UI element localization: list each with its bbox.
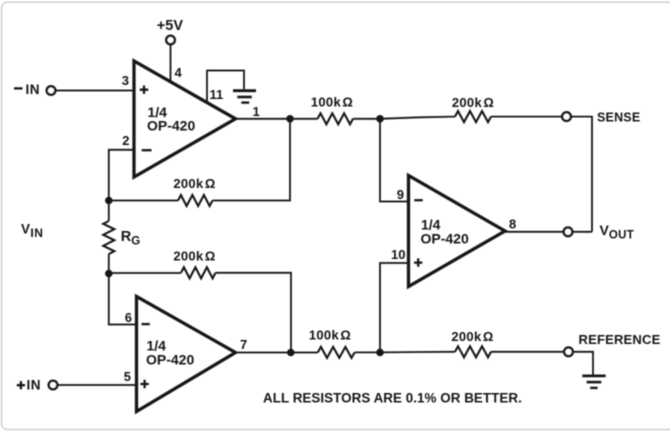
- wire: 200k to node C: [109, 200, 178, 202]
- svg-text:9: 9: [397, 187, 404, 202]
- wire: 200k to REFERENCE terminal: [491, 351, 564, 353]
- svg-text:ALL RESISTORS ARE 0.1% OR BETT: ALL RESISTORS ARE 0.1% OR BETTER.: [263, 390, 522, 405]
- REFERENCE terminal: [564, 348, 573, 357]
- svg-text:7: 7: [240, 337, 247, 352]
- resistor 200k (sense): [455, 111, 491, 122]
- resistor 200k (U2 feedback): [181, 267, 216, 278]
- wire: +5V to U1 pin 4: [170, 44, 172, 82]
- resistor 200k (reference): [455, 346, 491, 357]
- svg-text:10: 10: [391, 247, 405, 262]
- ground (reference): [582, 376, 605, 388]
- VOUT label: [600, 222, 635, 241]
- wire: SENSE terminal to VOUT line: [571, 117, 592, 232]
- RG label: [121, 229, 140, 247]
- svg-text:200k Ω: 200k Ω: [173, 176, 215, 191]
- ground (U1 pin 11): [233, 91, 256, 103]
- wire: 100k to node F: [355, 351, 380, 353]
- wire: node D down to U2 pin 6: [109, 274, 137, 325]
- svg-text:1: 1: [253, 104, 260, 119]
- resistor 100k (bottom): [318, 347, 355, 358]
- svg-text:100k Ω: 100k Ω: [309, 327, 351, 342]
- wire: node D to 200k (U2 feedback): [109, 272, 181, 274]
- op-amp U3 (1/4 OP-420, right): [409, 176, 506, 287]
- wire: U2 output pin 7 to node E: [236, 352, 318, 354]
- op-amp U2 minus sign (pin 6 input): [142, 323, 150, 325]
- -IN label: [14, 82, 40, 97]
- svg-text:IN: IN: [26, 82, 41, 97]
- resistor 100k (top): [318, 113, 354, 124]
- svg-text:IN: IN: [27, 378, 42, 393]
- node C junction: [105, 197, 113, 205]
- svg-text:200k Ω: 200k Ω: [173, 249, 215, 264]
- wire: U1 pin 2 to node C: [109, 150, 134, 201]
- wire: node A down to 200k feedback (U1): [213, 119, 291, 201]
- node D junction: [105, 270, 113, 278]
- svg-text:3: 3: [122, 73, 129, 88]
- op-amp U1 plus sign (pin 3 input): [140, 86, 148, 94]
- wire: REFERENCE terminal to ground: [573, 352, 593, 375]
- V_IN label: [21, 222, 43, 240]
- svg-text:OP-420: OP-420: [421, 231, 469, 247]
- wire: node B to 200k sense resistor: [380, 117, 455, 119]
- svg-text:OP-420: OP-420: [147, 118, 195, 134]
- svg-text:200k Ω: 200k Ω: [451, 329, 493, 344]
- resistor RG: [103, 221, 114, 254]
- op-amp U3 plus sign (pin 10 input): [414, 258, 422, 266]
- svg-text:2: 2: [122, 133, 129, 148]
- op-amp U3 minus sign (pin 9 input): [414, 199, 422, 201]
- wire: node C to RG: [108, 201, 110, 222]
- wire: node F to 200k reference resistor: [380, 351, 455, 354]
- VOUT terminal: [564, 228, 573, 237]
- svg-text:4: 4: [175, 65, 183, 80]
- SENSE terminal: [562, 112, 571, 121]
- svg-text:REFERENCE: REFERENCE: [579, 332, 661, 347]
- node E junction: [287, 349, 295, 357]
- wire: 100k to node B: [353, 118, 380, 120]
- op-amp U2 (1/4 OP-420, bottom left): [137, 297, 236, 412]
- svg-text:200k Ω: 200k Ω: [452, 95, 494, 110]
- svg-text:5: 5: [124, 369, 131, 384]
- wire: VOUT terminal to sense feedback corner: [572, 231, 592, 233]
- wire: node F up to U3 pin 10: [380, 263, 409, 352]
- wire: 200k to SENSE terminal: [491, 116, 562, 118]
- node A junction: [286, 115, 294, 123]
- wire: U1 pin 11 to ground: [207, 71, 244, 102]
- svg-text:SENSE: SENSE: [597, 110, 640, 124]
- wire: 200k right then down to U2 output node E: [216, 273, 292, 353]
- svg-text:8: 8: [509, 217, 516, 232]
- +IN label: [17, 378, 41, 393]
- wire: U3 output pin 8 to VOUT terminal: [505, 231, 564, 233]
- op-amp U1 minus sign (pin 2 input): [142, 149, 152, 151]
- +IN terminal: [49, 381, 58, 390]
- op-amp U2 plus sign (pin 5 input): [140, 380, 148, 388]
- wire: +IN terminal to U2 pin 5: [57, 384, 136, 386]
- wire: -IN terminal to U1 pin 3: [55, 90, 134, 92]
- wire: node B down to U3 pin 9: [380, 119, 409, 202]
- node B junction: [376, 115, 384, 123]
- op-amp U1 (1/4 OP-420, top left): [134, 61, 236, 177]
- svg-text:6: 6: [125, 310, 132, 325]
- resistor 200k (U1 feedback): [178, 195, 213, 206]
- svg-text:OP-420: OP-420: [146, 352, 194, 368]
- svg-text:11: 11: [210, 87, 224, 102]
- +5V terminal: [166, 36, 175, 45]
- wire: RG to node D: [108, 254, 110, 274]
- -IN terminal: [47, 86, 56, 95]
- node F junction: [376, 349, 384, 357]
- svg-text:100k Ω: 100k Ω: [311, 95, 353, 110]
- svg-text:+5V: +5V: [157, 18, 184, 34]
- wire: U1 output pin 1 to node A: [236, 118, 318, 120]
